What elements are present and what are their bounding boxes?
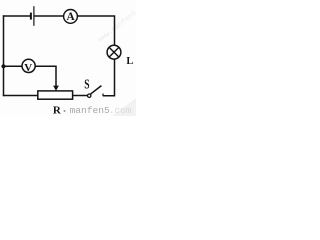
svg-text:S: S [84,75,90,91]
lamp cross stroke 1 [109,47,119,57]
battery negative plate (short thick) [30,13,32,20]
wire top-left horizontal [3,15,30,17]
svg-text:manfen5: manfen5 [70,105,111,116]
switch S right contact nub [102,94,104,96]
voltmeter U2 circle [22,59,35,72]
wire junction to voltmeter [4,65,22,67]
wire bottom-left horizontal [3,95,38,97]
wire left vertical [3,15,5,96]
wire lamp bottom down and left to switch [103,59,115,96]
wire voltmeter right then down to slider [35,66,56,86]
svg-text:L: L [126,56,133,67]
battery positive plate (long thin) [33,6,35,26]
lamp L circle [107,45,121,59]
svg-text:R: R [53,104,62,116]
ammeter U1 circle [64,10,78,24]
svg-text:com: com [115,105,132,116]
wire resistor to switch hinge [73,95,88,97]
switch S hinge circle [88,94,91,97]
wire ammeter to top-right corner and down to lamp [77,16,114,45]
resistor R box (rheostat) [38,91,73,99]
svg-text:A: A [67,11,76,23]
switch S lever [90,86,101,95]
wire battery to ammeter [34,15,63,17]
junction node dot on left wire [1,64,5,68]
rheostat slider arrow head [53,86,59,91]
lamp cross stroke 2 [109,47,119,57]
svg-text:V: V [24,62,32,74]
